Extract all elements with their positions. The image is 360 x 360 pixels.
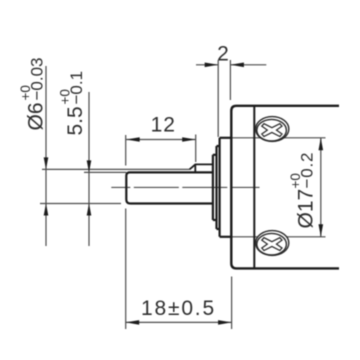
- svg-text:Ø6: Ø6: [25, 102, 48, 130]
- svg-text:18±0.5: 18±0.5: [141, 297, 216, 320]
- svg-text:12: 12: [151, 114, 176, 137]
- svg-text:Ø17: Ø17: [295, 189, 318, 229]
- svg-text:5.5: 5.5: [64, 106, 87, 135]
- svg-text:−0.1: −0.1: [67, 71, 86, 105]
- svg-text:−0.2: −0.2: [298, 152, 317, 189]
- svg-text:2: 2: [217, 43, 230, 66]
- svg-text:−0.03: −0.03: [28, 57, 47, 100]
